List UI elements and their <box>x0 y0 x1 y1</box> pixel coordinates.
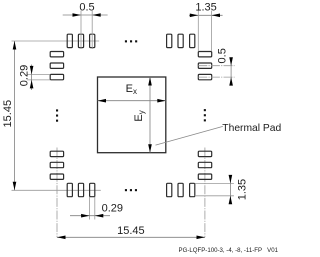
label footer part number <box>179 247 279 254</box>
wire extension line bottom row center <box>12 189 101 191</box>
pad left column bottom group <box>50 151 63 179</box>
dimension 1.35 top-right <box>189 1 223 51</box>
leader thermal pad <box>156 126 223 145</box>
pad left column top group <box>50 52 63 80</box>
node ellipsis bottom <box>125 189 137 191</box>
svg-text:0.5: 0.5 <box>217 48 229 63</box>
svg-text:0.29: 0.29 <box>19 65 31 86</box>
thermal pad square <box>98 77 166 153</box>
dimension 15.45 bottom <box>57 225 205 239</box>
svg-text:15.45: 15.45 <box>2 100 14 128</box>
pad bottom-left group <box>67 183 95 196</box>
pad top-right group <box>167 34 195 47</box>
node ellipsis top <box>125 40 137 42</box>
svg-text:0.29: 0.29 <box>102 202 123 214</box>
dimension 0.5 right <box>198 48 234 85</box>
dimension 0.29 bottom <box>70 197 123 220</box>
wire extension line left column center <box>56 148 58 238</box>
label Thermal Pad <box>222 123 281 134</box>
node ellipsis right <box>204 109 206 121</box>
pad right column bottom group <box>198 151 211 179</box>
wire extension line top row center <box>12 40 100 42</box>
svg-text:15.45: 15.45 <box>117 225 145 237</box>
dimension 0.29 left <box>19 65 51 91</box>
svg-text:1.35: 1.35 <box>195 1 216 13</box>
svg-text:0.5: 0.5 <box>79 1 94 13</box>
pad top-left group <box>67 34 95 47</box>
dimension 0.5 top <box>63 1 108 49</box>
dimension 15.45 left <box>2 41 16 190</box>
wire extension line right column center <box>204 148 206 238</box>
svg-text:1.35: 1.35 <box>236 179 248 200</box>
pad bottom-right group <box>167 183 195 196</box>
dimension Ex <box>98 83 166 102</box>
svg-text:PG-LQFP-100-3, -4, -8, -11-FP: PG-LQFP-100-3, -4, -8, -11-FP V01 <box>179 247 279 254</box>
dimension Ey <box>133 77 152 153</box>
node ellipsis left <box>56 109 58 121</box>
svg-text:Thermal Pad: Thermal Pad <box>222 123 281 134</box>
pad right column top group <box>198 52 211 80</box>
dimension 1.35 bottom-right <box>195 175 249 204</box>
